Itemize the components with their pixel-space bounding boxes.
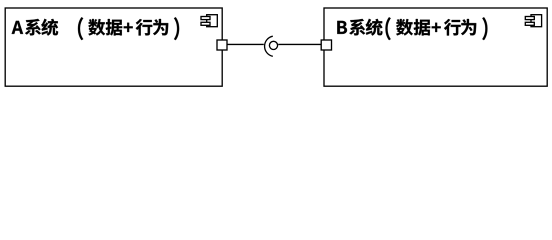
component icon B (525, 15, 541, 27)
component icon A (201, 15, 217, 27)
interface socket arc (265, 36, 273, 56)
label B text (337, 17, 487, 40)
component A box (5, 8, 222, 86)
port A square (217, 40, 227, 50)
component B box (324, 8, 547, 86)
label A text (12, 17, 179, 40)
wire port A to socket (227, 43, 264, 45)
port B square (321, 40, 331, 50)
wire ball to port B (278, 43, 321, 45)
interface ball (269, 41, 277, 49)
